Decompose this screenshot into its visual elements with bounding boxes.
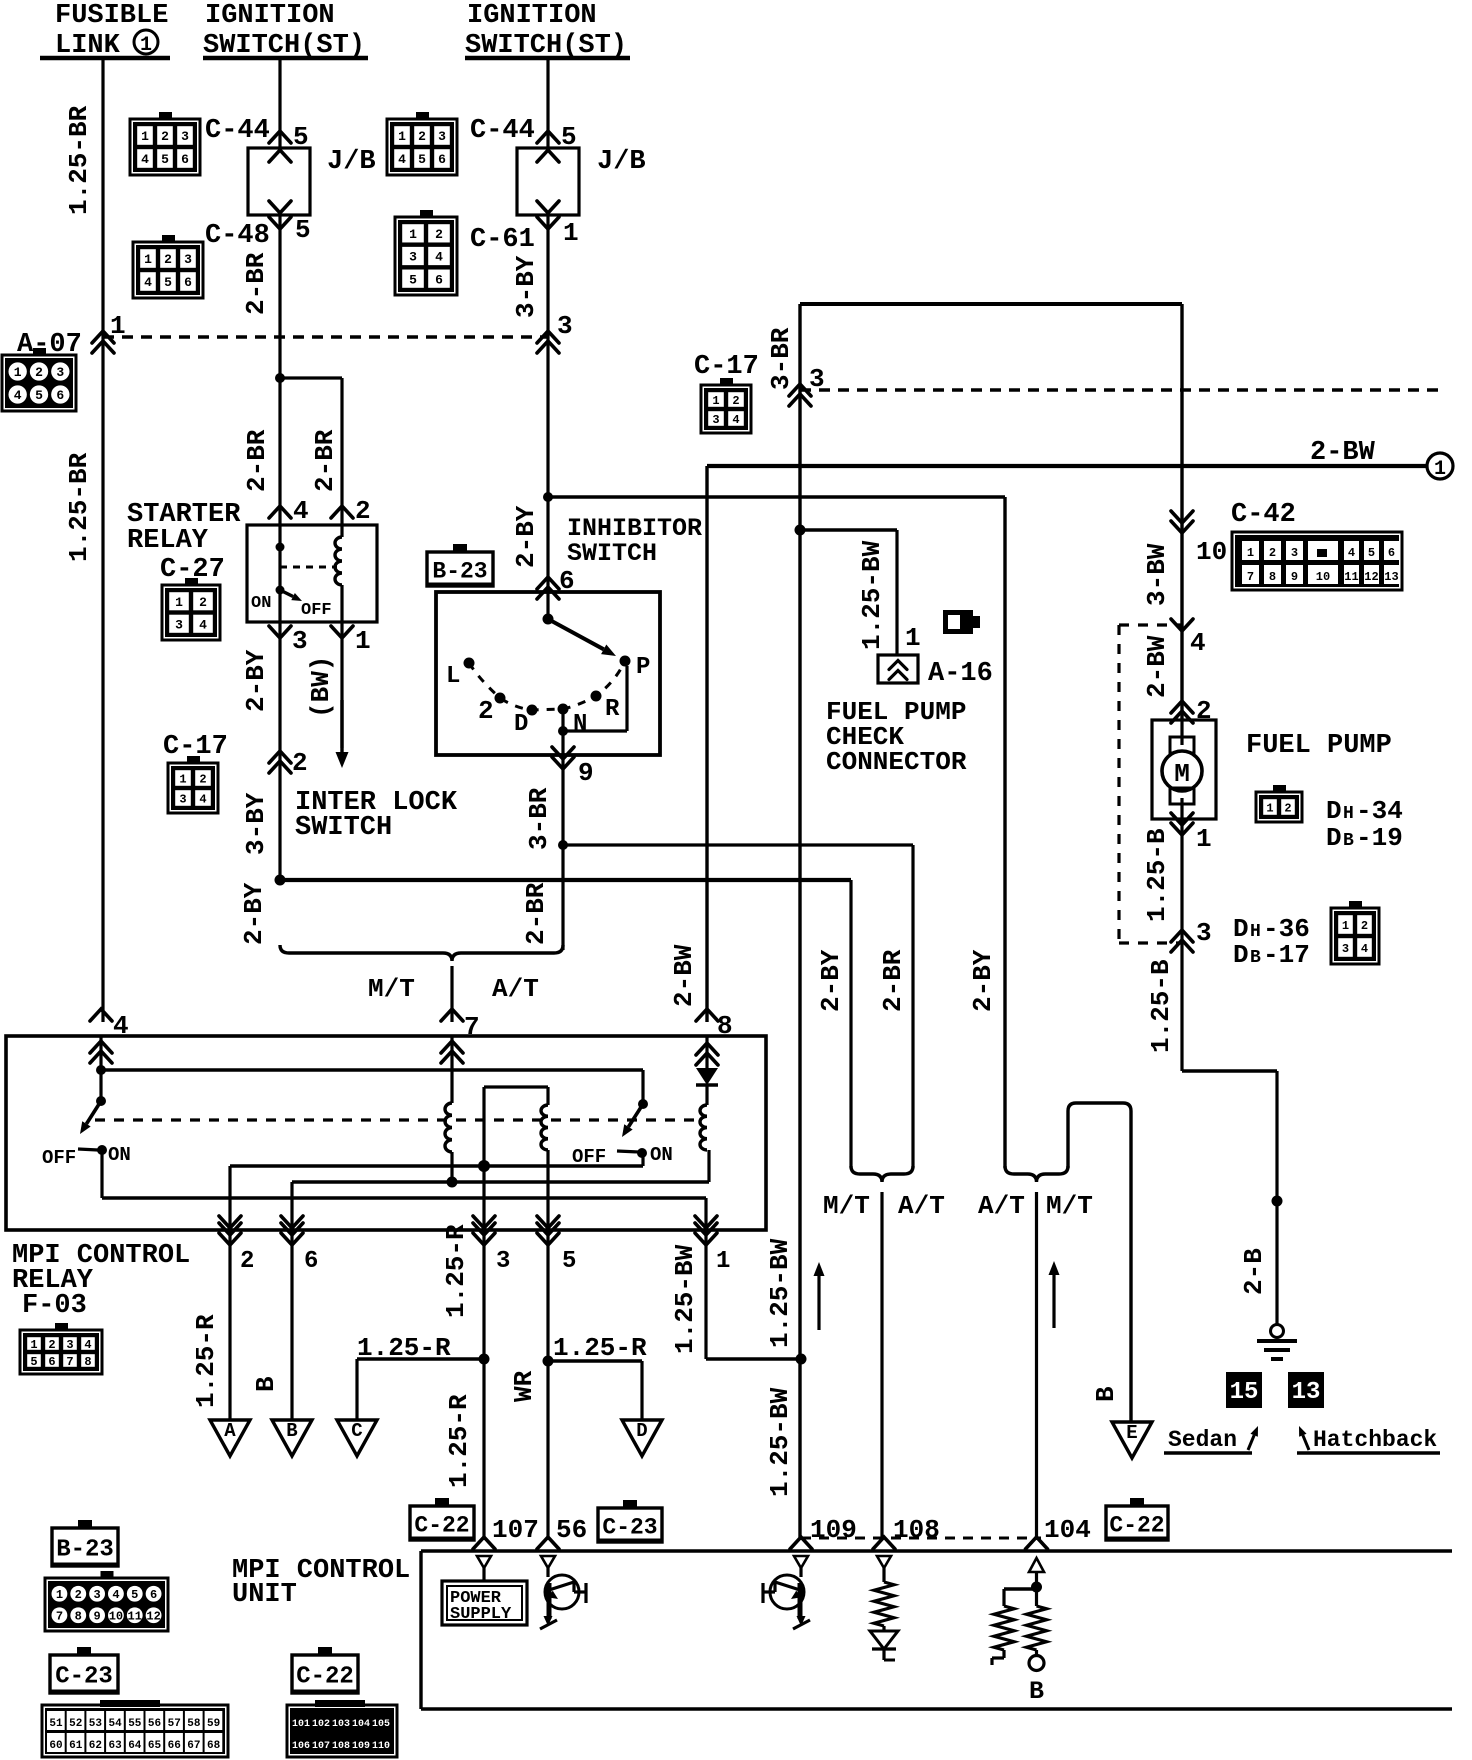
- svg-text:2: 2: [35, 365, 43, 380]
- svg-text:B-23: B-23: [56, 1537, 114, 1564]
- svg-text:B: B: [1029, 1677, 1044, 1706]
- svg-text:2-BY: 2-BY: [239, 882, 269, 945]
- svg-text:-34: -34: [1356, 796, 1403, 826]
- svg-text:H: H: [1250, 922, 1261, 942]
- svg-text:SUPPLY: SUPPLY: [450, 1605, 512, 1624]
- svg-text:B: B: [1343, 831, 1354, 851]
- svg-text:3: 3: [557, 311, 573, 341]
- svg-text:3: 3: [1196, 918, 1212, 948]
- svg-text:4: 4: [113, 1011, 129, 1041]
- svg-text:1.25-R: 1.25-R: [553, 1333, 647, 1363]
- svg-text:101: 101: [292, 1719, 310, 1730]
- svg-text:58: 58: [187, 1718, 201, 1730]
- svg-text:B-23: B-23: [432, 558, 487, 584]
- svg-text:B: B: [251, 1376, 281, 1392]
- svg-text:3: 3: [1342, 942, 1349, 956]
- svg-text:D: D: [1233, 940, 1249, 970]
- svg-text:12: 12: [146, 1610, 160, 1624]
- svg-text:1: 1: [1247, 546, 1254, 560]
- svg-text:11: 11: [1344, 570, 1358, 584]
- svg-text:B: B: [1250, 948, 1261, 968]
- svg-text:Hatchback: Hatchback: [1313, 1427, 1437, 1453]
- svg-text:57: 57: [168, 1718, 181, 1730]
- svg-text:105: 105: [372, 1719, 390, 1730]
- svg-text:RELAY: RELAY: [127, 526, 209, 556]
- svg-text:IGNITION: IGNITION: [205, 1, 335, 31]
- svg-text:C-44: C-44: [205, 116, 270, 146]
- svg-text:6: 6: [48, 1355, 55, 1369]
- svg-text:1.25-R: 1.25-R: [441, 1224, 471, 1318]
- svg-text:3: 3: [175, 617, 183, 632]
- svg-text:3: 3: [1291, 546, 1298, 560]
- svg-text:65: 65: [148, 1740, 162, 1752]
- svg-text:J/B: J/B: [327, 147, 376, 177]
- svg-text:B: B: [1091, 1386, 1121, 1402]
- svg-text:2: 2: [48, 1338, 55, 1352]
- svg-text:4: 4: [435, 250, 443, 265]
- svg-text:56: 56: [148, 1718, 161, 1730]
- svg-text:B: B: [286, 1420, 297, 1442]
- svg-text:55: 55: [128, 1718, 142, 1730]
- svg-text:M/T: M/T: [368, 974, 415, 1004]
- svg-text:(BW): (BW): [306, 656, 336, 718]
- svg-text:4: 4: [1190, 628, 1206, 658]
- svg-text:CONNECTOR: CONNECTOR: [826, 747, 967, 777]
- svg-text:1: 1: [1434, 458, 1446, 481]
- svg-text:4: 4: [144, 275, 152, 290]
- svg-text:5: 5: [131, 1588, 138, 1602]
- svg-text:2-BR: 2-BR: [878, 949, 908, 1012]
- svg-text:5: 5: [418, 152, 426, 167]
- svg-text:3-BY: 3-BY: [241, 792, 271, 855]
- svg-text:OFF: OFF: [301, 601, 332, 620]
- svg-text:A/T: A/T: [978, 1191, 1025, 1221]
- svg-text:2-BW: 2-BW: [669, 944, 699, 1007]
- svg-text:108: 108: [332, 1741, 350, 1752]
- svg-text:C-61: C-61: [470, 225, 535, 255]
- svg-text:107: 107: [492, 1515, 539, 1545]
- svg-text:3-BR: 3-BR: [524, 787, 554, 850]
- svg-text:2: 2: [1361, 919, 1368, 933]
- svg-text:4: 4: [732, 413, 739, 427]
- svg-text:M/T: M/T: [823, 1191, 870, 1221]
- svg-text:108: 108: [893, 1515, 940, 1545]
- svg-text:8: 8: [717, 1011, 733, 1041]
- svg-text:1.25-BR: 1.25-BR: [64, 105, 94, 215]
- svg-text:C: C: [351, 1420, 362, 1442]
- svg-text:5: 5: [562, 1248, 576, 1275]
- svg-text:OFF: OFF: [42, 1147, 76, 1169]
- svg-text:4: 4: [199, 617, 207, 632]
- svg-text:4: 4: [293, 496, 309, 526]
- svg-text:IGNITION: IGNITION: [467, 1, 597, 31]
- svg-text:C-22: C-22: [1109, 1512, 1164, 1538]
- svg-text:1.25-R: 1.25-R: [191, 1314, 221, 1408]
- svg-text:L: L: [446, 663, 460, 690]
- svg-text:C-17: C-17: [694, 352, 759, 382]
- svg-text:2: 2: [164, 252, 172, 267]
- svg-text:A/T: A/T: [492, 974, 539, 1004]
- svg-text:6: 6: [1388, 546, 1395, 560]
- svg-text:3: 3: [712, 413, 719, 427]
- svg-text:13: 13: [1384, 570, 1398, 584]
- svg-text:5: 5: [295, 215, 311, 245]
- svg-text:3: 3: [496, 1248, 510, 1275]
- svg-text:104: 104: [1044, 1515, 1091, 1545]
- svg-text:4: 4: [1348, 546, 1355, 560]
- svg-text:1: 1: [175, 595, 183, 610]
- svg-text:7: 7: [1247, 570, 1254, 584]
- svg-text:3-BY: 3-BY: [511, 255, 541, 318]
- svg-text:1: 1: [355, 626, 371, 656]
- svg-text:D: D: [514, 711, 528, 738]
- svg-text:FUSIBLE: FUSIBLE: [55, 1, 168, 31]
- svg-text:6: 6: [181, 152, 189, 167]
- svg-text:11: 11: [128, 1610, 142, 1624]
- svg-text:1: 1: [30, 1338, 37, 1352]
- svg-text:D: D: [1326, 823, 1342, 853]
- svg-text:3: 3: [409, 250, 417, 265]
- svg-text:2-BR: 2-BR: [310, 429, 340, 492]
- svg-text:2: 2: [75, 1588, 82, 1602]
- svg-text:8: 8: [84, 1355, 91, 1369]
- svg-text:1: 1: [14, 365, 22, 380]
- svg-text:M: M: [1174, 759, 1190, 789]
- svg-text:1.25-R: 1.25-R: [357, 1333, 451, 1363]
- svg-text:64: 64: [128, 1740, 142, 1752]
- svg-text:ON: ON: [108, 1144, 131, 1166]
- svg-text:2: 2: [292, 748, 308, 778]
- svg-text:3-BW: 3-BW: [1142, 543, 1172, 606]
- svg-text:9: 9: [1291, 570, 1298, 584]
- svg-text:2-BW: 2-BW: [1310, 438, 1376, 468]
- svg-text:2: 2: [1284, 801, 1291, 815]
- svg-text:5: 5: [35, 388, 43, 403]
- svg-text:3: 3: [93, 1588, 100, 1602]
- svg-text:3: 3: [66, 1338, 73, 1352]
- svg-text:103: 103: [332, 1719, 350, 1730]
- svg-text:4: 4: [199, 792, 206, 806]
- svg-text:8: 8: [1269, 570, 1276, 584]
- svg-text:63: 63: [108, 1740, 122, 1752]
- svg-text:SWITCH: SWITCH: [567, 539, 657, 568]
- svg-text:2: 2: [478, 696, 494, 726]
- svg-text:4: 4: [84, 1338, 91, 1352]
- svg-text:FUEL PUMP: FUEL PUMP: [1246, 731, 1392, 761]
- svg-text:1.25-B: 1.25-B: [1142, 828, 1172, 922]
- svg-text:66: 66: [168, 1740, 181, 1752]
- svg-text:2-BW: 2-BW: [1142, 635, 1172, 698]
- svg-text:15: 15: [1230, 1379, 1259, 1406]
- svg-text:10: 10: [1316, 570, 1330, 584]
- svg-text:67: 67: [187, 1740, 200, 1752]
- svg-text:C-42: C-42: [1231, 500, 1296, 530]
- svg-text:H: H: [1343, 804, 1354, 824]
- svg-text:109: 109: [352, 1741, 370, 1752]
- svg-text:7: 7: [56, 1610, 63, 1624]
- svg-text:ON: ON: [251, 594, 271, 613]
- svg-text:D: D: [636, 1420, 647, 1442]
- svg-text:1.25-R: 1.25-R: [444, 1394, 474, 1488]
- svg-text:59: 59: [207, 1718, 220, 1730]
- svg-text:3: 3: [179, 792, 186, 806]
- svg-text:1: 1: [409, 227, 417, 242]
- svg-text:2: 2: [199, 772, 206, 786]
- svg-text:5: 5: [164, 275, 172, 290]
- svg-text:2-BY: 2-BY: [511, 505, 541, 568]
- svg-text:1.25-B: 1.25-B: [1146, 959, 1176, 1053]
- svg-text:56: 56: [556, 1515, 587, 1545]
- svg-text:1: 1: [140, 34, 152, 57]
- svg-text:68: 68: [207, 1740, 221, 1752]
- svg-text:2: 2: [418, 129, 426, 144]
- svg-text:F-03: F-03: [22, 1291, 87, 1321]
- svg-text:2: 2: [355, 496, 371, 526]
- svg-text:M/T: M/T: [1046, 1191, 1093, 1221]
- svg-text:109: 109: [810, 1515, 857, 1545]
- svg-text:6: 6: [56, 388, 64, 403]
- svg-text:4: 4: [398, 152, 406, 167]
- svg-text:52: 52: [69, 1718, 82, 1730]
- svg-text:3: 3: [184, 252, 192, 267]
- svg-text:1: 1: [110, 311, 126, 341]
- svg-text:A/T: A/T: [898, 1191, 945, 1221]
- svg-text:E: E: [1126, 1422, 1137, 1444]
- svg-text:OFF: OFF: [572, 1146, 606, 1168]
- svg-text:1: 1: [56, 1588, 63, 1602]
- svg-text:6: 6: [304, 1248, 318, 1275]
- svg-text:3: 3: [438, 129, 446, 144]
- svg-text:5: 5: [1368, 546, 1375, 560]
- svg-text:1: 1: [712, 394, 719, 408]
- svg-text:107: 107: [312, 1741, 330, 1752]
- svg-text:6: 6: [150, 1588, 157, 1602]
- svg-text:1: 1: [144, 252, 152, 267]
- svg-text:10: 10: [1196, 537, 1227, 567]
- svg-text:3: 3: [292, 626, 308, 656]
- svg-text:J/B: J/B: [597, 147, 646, 177]
- svg-text:7: 7: [66, 1355, 73, 1369]
- svg-text:2-BY: 2-BY: [968, 949, 998, 1012]
- svg-text:1: 1: [1196, 824, 1212, 854]
- svg-text:1.25-BW: 1.25-BW: [670, 1244, 700, 1354]
- svg-text:D: D: [1326, 796, 1342, 826]
- svg-text:102: 102: [312, 1719, 330, 1730]
- svg-text:1: 1: [1266, 801, 1273, 815]
- svg-text:2: 2: [732, 394, 739, 408]
- svg-text:104: 104: [352, 1719, 370, 1730]
- svg-text:ON: ON: [650, 1144, 673, 1166]
- svg-text:1: 1: [179, 772, 186, 786]
- svg-text:R: R: [605, 696, 620, 723]
- svg-text:2: 2: [199, 595, 207, 610]
- svg-text:C-23: C-23: [602, 1514, 657, 1540]
- svg-text:1.25-BW: 1.25-BW: [857, 540, 887, 650]
- svg-text:C-23: C-23: [55, 1664, 113, 1691]
- svg-text:6: 6: [184, 275, 192, 290]
- svg-text:1.25-BR: 1.25-BR: [64, 452, 94, 562]
- svg-text:106: 106: [292, 1741, 310, 1752]
- svg-text:4: 4: [14, 388, 22, 403]
- svg-text:N: N: [573, 711, 587, 738]
- svg-text:2-BY: 2-BY: [816, 949, 846, 1012]
- svg-text:110: 110: [372, 1741, 390, 1752]
- svg-text:A: A: [224, 1420, 236, 1442]
- svg-text:2-BY: 2-BY: [241, 649, 271, 712]
- svg-text:3: 3: [56, 365, 64, 380]
- svg-text:8: 8: [75, 1610, 82, 1624]
- svg-text:53: 53: [89, 1718, 103, 1730]
- svg-text:1: 1: [905, 623, 921, 653]
- svg-text:-19: -19: [1356, 823, 1403, 853]
- svg-text:2-BR: 2-BR: [242, 429, 272, 492]
- svg-text:62: 62: [89, 1740, 102, 1752]
- svg-text:5: 5: [409, 272, 417, 287]
- svg-text:1: 1: [1342, 919, 1349, 933]
- svg-text:-17: -17: [1263, 940, 1310, 970]
- svg-text:2: 2: [435, 227, 443, 242]
- svg-text:2-BR: 2-BR: [241, 252, 271, 315]
- svg-text:2: 2: [240, 1248, 254, 1275]
- svg-text:2-B: 2-B: [1239, 1248, 1269, 1295]
- svg-text:54: 54: [108, 1718, 122, 1730]
- svg-text:1: 1: [141, 129, 149, 144]
- svg-text:3-BR: 3-BR: [766, 327, 796, 390]
- svg-text:5: 5: [161, 152, 169, 167]
- svg-text:1.25-BW: 1.25-BW: [765, 1238, 795, 1348]
- svg-text:C-22: C-22: [296, 1664, 354, 1691]
- svg-text:C-22: C-22: [414, 1512, 469, 1538]
- svg-text:10: 10: [109, 1610, 123, 1624]
- svg-text:9: 9: [578, 758, 594, 788]
- svg-text:4: 4: [141, 152, 149, 167]
- svg-text:WR: WR: [509, 1370, 539, 1402]
- svg-text:4: 4: [1361, 942, 1368, 956]
- svg-text:9: 9: [93, 1610, 100, 1624]
- svg-text:3: 3: [181, 129, 189, 144]
- svg-text:1: 1: [563, 218, 579, 248]
- svg-text:2: 2: [161, 129, 169, 144]
- svg-text:51: 51: [49, 1718, 63, 1730]
- svg-text:1.25-BW: 1.25-BW: [765, 1387, 795, 1497]
- svg-text:1: 1: [716, 1248, 730, 1275]
- svg-text:C-44: C-44: [470, 116, 535, 146]
- svg-text:C-48: C-48: [205, 221, 270, 251]
- svg-text:SWITCH: SWITCH: [295, 813, 392, 843]
- svg-text:Sedan: Sedan: [1168, 1427, 1237, 1453]
- svg-text:P: P: [636, 654, 650, 681]
- svg-text:61: 61: [69, 1740, 83, 1752]
- svg-text:4: 4: [112, 1588, 119, 1602]
- svg-text:13: 13: [1292, 1379, 1321, 1406]
- svg-text:2-BR: 2-BR: [521, 882, 551, 945]
- svg-text:6: 6: [438, 152, 446, 167]
- svg-text:1: 1: [398, 129, 406, 144]
- svg-text:12: 12: [1364, 570, 1378, 584]
- svg-text:A-16: A-16: [928, 659, 993, 689]
- svg-text:UNIT: UNIT: [232, 1580, 297, 1610]
- svg-text:5: 5: [30, 1355, 37, 1369]
- svg-text:6: 6: [435, 272, 443, 287]
- svg-text:60: 60: [49, 1740, 62, 1752]
- svg-text:2: 2: [1269, 546, 1276, 560]
